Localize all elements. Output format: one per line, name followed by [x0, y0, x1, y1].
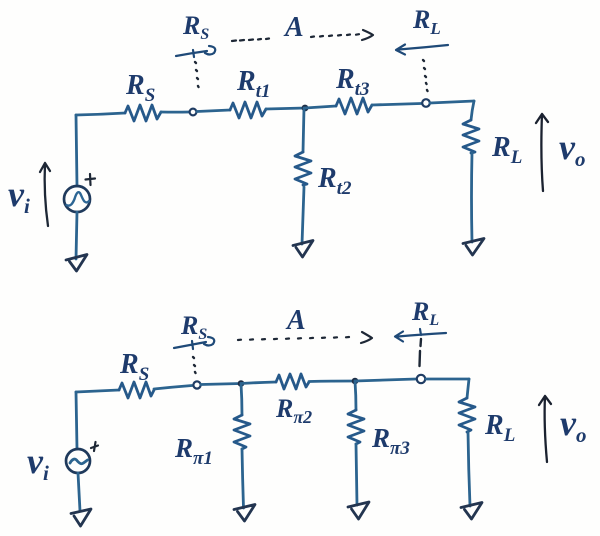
- svg-text:Rπ2: Rπ2: [275, 394, 312, 427]
- svg-text:A: A: [283, 12, 304, 43]
- source vi (top AC source): [64, 186, 90, 212]
- plus polarity mark (top source): [86, 174, 96, 185]
- wire source to ground (top): [76, 212, 77, 259]
- node output (open circle): [422, 99, 430, 107]
- arrow vo (top output): [536, 114, 548, 191]
- wire junction1 to Rpi2: [241, 382, 276, 384]
- resistor RL (top, load): [463, 120, 479, 153]
- dashed leader down to output node (bottom): [420, 339, 422, 366]
- resistor Rt2 (shunt): [295, 152, 311, 185]
- resistor Rt3: [336, 98, 372, 114]
- resistor Rt1: [230, 102, 266, 118]
- wire node to junction 1 (bottom): [201, 384, 241, 385]
- svg-text:Rπ1: Rπ1: [174, 433, 213, 469]
- dotted arrow right of A (top): [311, 34, 359, 37]
- wire RL to ground (bottom): [468, 432, 470, 506]
- junction dot (Rpi3 tap): [352, 378, 359, 385]
- wire RS to input node (bottom): [154, 386, 192, 390]
- arrow RL looking left (top): [396, 45, 448, 55]
- wire right vertical down to RL (bottom): [467, 379, 469, 398]
- dotted arrow through A (bottom): [238, 337, 349, 340]
- dotted leader down to input node (top): [195, 62, 199, 87]
- wire junction2 to output node (bottom): [355, 379, 416, 381]
- svg-text:Rt3: Rt3: [335, 64, 369, 100]
- wire output node to right corner: [430, 101, 474, 103]
- wire top bus left segment: [76, 113, 125, 115]
- node input (bottom, open circle): [193, 381, 200, 388]
- arrowhead of A dotted arrow (bottom): [361, 332, 372, 343]
- wire junction to Rt3: [305, 106, 336, 108]
- ground (bottom right, under RL): [461, 503, 482, 520]
- wire Rpi1 branch vertical: [241, 384, 242, 416]
- arrow vo (bottom output): [539, 396, 551, 462]
- ground (top right, under RL): [463, 239, 484, 256]
- svg-text:vo: vo: [559, 127, 585, 171]
- wire left vertical from bus to source: [76, 115, 77, 186]
- wire Rt2 to ground: [302, 187, 304, 244]
- wire from node to Rt1: [197, 110, 230, 112]
- svg-text:vo: vo: [560, 403, 586, 447]
- wire left vertical from bus to source (bottom): [76, 392, 77, 449]
- svg-text:Rt1: Rt1: [236, 66, 270, 102]
- svg-text:RS: RS: [119, 349, 149, 385]
- ground (under Rt2): [293, 241, 313, 258]
- svg-text:RS: RS: [180, 311, 207, 343]
- wire Rpi3 branch vertical: [355, 381, 356, 410]
- svg-text:RS: RS: [125, 70, 155, 106]
- wire right vertical down to RL: [471, 101, 474, 120]
- resistor RL (bottom, load): [459, 398, 475, 432]
- resistor Rpi2 (series): [276, 374, 309, 389]
- arrowhead of A dotted arrow (top): [362, 30, 373, 40]
- svg-text:A: A: [285, 305, 306, 336]
- wire Rpi3 to ground: [356, 444, 357, 505]
- wire Rpi1 to ground: [242, 449, 244, 508]
- resistor Rpi3 (shunt): [348, 410, 364, 444]
- junction dot (Rpi1 tap): [238, 380, 245, 387]
- wire Rpi2 to junction 2: [309, 380, 355, 383]
- ground (under Rpi3): [348, 502, 369, 519]
- svg-text:Rt2: Rt2: [317, 163, 352, 199]
- svg-text:RL: RL: [411, 297, 439, 329]
- plus polarity mark (bottom source): [91, 442, 98, 451]
- wire Rt1 to junction: [266, 108, 305, 109]
- wire source to ground (bottom): [78, 473, 80, 511]
- wire Rt2 branch vertical: [303, 108, 304, 152]
- junction dot (Rt2 tap): [302, 105, 309, 112]
- wire from RS to input node: [161, 111, 189, 114]
- wire RL to ground: [470, 153, 473, 242]
- svg-text:Rπ3: Rπ3: [371, 423, 410, 459]
- arrow RS looking right (top): [176, 46, 215, 57]
- svg-text:RL: RL: [491, 132, 522, 168]
- node output (bottom, open circle): [417, 375, 425, 383]
- svg-text:vi: vi: [27, 441, 49, 485]
- wire bottom bus left segment: [76, 390, 119, 392]
- ground (under Rpi1): [234, 505, 255, 522]
- ground (under top source): [66, 255, 87, 272]
- source vi (bottom AC source): [66, 449, 90, 473]
- arrow RS looking right (bottom): [174, 337, 214, 349]
- wire Rt3 to output node: [372, 104, 421, 106]
- svg-text:RL: RL: [412, 5, 441, 38]
- resistor RS (bottom, series): [119, 382, 154, 398]
- wire output node to right corner (bottom): [426, 378, 469, 381]
- dotted leader down to input node (bottom): [193, 357, 196, 373]
- node input (open circle): [190, 109, 197, 116]
- svg-text:RL: RL: [484, 410, 515, 446]
- dotted line left of A (top): [232, 39, 269, 42]
- dotted leader down to output node (top): [423, 60, 428, 91]
- svg-text:vi: vi: [8, 174, 30, 218]
- arrow RL looking left (bottom): [395, 329, 446, 342]
- resistor Rpi1 (shunt): [234, 415, 250, 449]
- arrow vi (top input): [40, 163, 50, 226]
- svg-text:RS: RS: [182, 11, 209, 43]
- ground (under bottom source): [71, 509, 91, 526]
- resistor RS (top, series): [125, 105, 161, 121]
